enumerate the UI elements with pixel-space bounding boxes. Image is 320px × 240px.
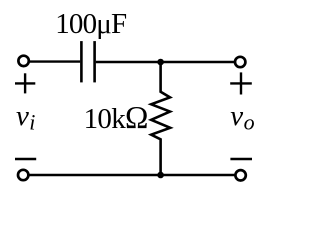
svg-text:i: i — [29, 110, 35, 135]
svg-text:o: o — [244, 110, 255, 135]
svg-text:v: v — [16, 100, 29, 132]
svg-text:v: v — [230, 100, 243, 132]
svg-text:100μF: 100μF — [55, 8, 127, 40]
svg-text:10kΩ: 10kΩ — [84, 100, 148, 135]
